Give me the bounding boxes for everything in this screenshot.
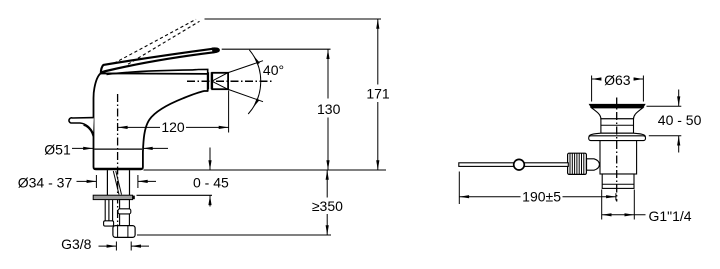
lever tip solid fill (213, 48, 219, 52)
drain collar (589, 136, 646, 141)
lever tip line (222, 48, 331, 50)
dimension 40-50 (647, 106, 682, 136)
shank thread hatch (113, 171, 121, 195)
base bottom heavy edge (94, 168, 142, 170)
dimension diam 63 (592, 76, 644, 102)
dimension G3/8 (61, 236, 92, 252)
svg-text:Ø51: Ø51 (44, 141, 71, 157)
svg-text:40°: 40° (263, 62, 284, 78)
drain rim (590, 104, 645, 107)
spray angle rays (212, 61, 263, 102)
svg-text:190±5: 190±5 (522, 188, 561, 204)
svg-text:G1"1/4: G1"1/4 (648, 208, 691, 224)
deck line (144, 169, 387, 171)
faucet lever (101, 49, 219, 74)
svg-text:130: 130 (317, 101, 341, 117)
mounting studs (105, 200, 112, 221)
top line raised lever tip level (205, 18, 382, 20)
dimension >=350 (326, 170, 328, 235)
dimension diam 34-37 (18, 175, 73, 191)
drain trumpet neck (592, 108, 643, 119)
svg-text:0 - 45: 0 - 45 (193, 175, 229, 191)
svg-text:G3/8: G3/8 (61, 236, 92, 252)
dimension 190+-5 (458, 172, 460, 205)
G3/8 nut (113, 226, 135, 238)
dimension G1"1/4 (602, 190, 635, 220)
knurled nut (568, 153, 587, 174)
supply hose (120, 200, 130, 226)
rod ball (514, 159, 525, 170)
base cylinder divider line (94, 148, 142, 150)
dimension 120 (118, 126, 229, 128)
pull rod (459, 163, 569, 167)
mounting flange (93, 195, 132, 199)
aerator (212, 73, 228, 89)
nut connector (587, 159, 600, 170)
spout groove (209, 72, 212, 89)
spout centerline (187, 80, 272, 82)
cartridge cap line (107, 69, 208, 74)
svg-text:120: 120 (161, 119, 185, 135)
pop-up knob hook (69, 118, 94, 134)
stud foot (104, 221, 114, 226)
hose collar (118, 209, 131, 214)
label 40deg (263, 62, 284, 78)
dimension 171 (377, 19, 379, 170)
svg-text:40 - 50: 40 - 50 (658, 112, 702, 128)
svg-text:Ø34 - 37: Ø34 - 37 (18, 175, 73, 191)
drain flare (589, 133, 645, 136)
svg-text:171: 171 (366, 85, 390, 101)
svg-text:Ø63: Ø63 (604, 72, 631, 88)
hose bottom line (137, 234, 331, 236)
faucet centerline (117, 94, 119, 238)
drain tailpiece (602, 174, 634, 188)
spray angle arc (248, 50, 261, 114)
lever raised position dashed (114, 19, 196, 63)
dimension 130 (327, 49, 329, 170)
svg-text:≥350: ≥350 (312, 198, 343, 214)
drain centerline (616, 98, 618, 202)
shank (107, 170, 129, 195)
drain cylinder (601, 119, 634, 133)
drain body (600, 141, 637, 174)
flange level line (137, 194, 213, 196)
dimension 0-45 (209, 148, 211, 207)
drain cylinder groove (601, 124, 634, 126)
dimension diam 51 (44, 141, 71, 157)
faucet body (94, 73, 208, 169)
